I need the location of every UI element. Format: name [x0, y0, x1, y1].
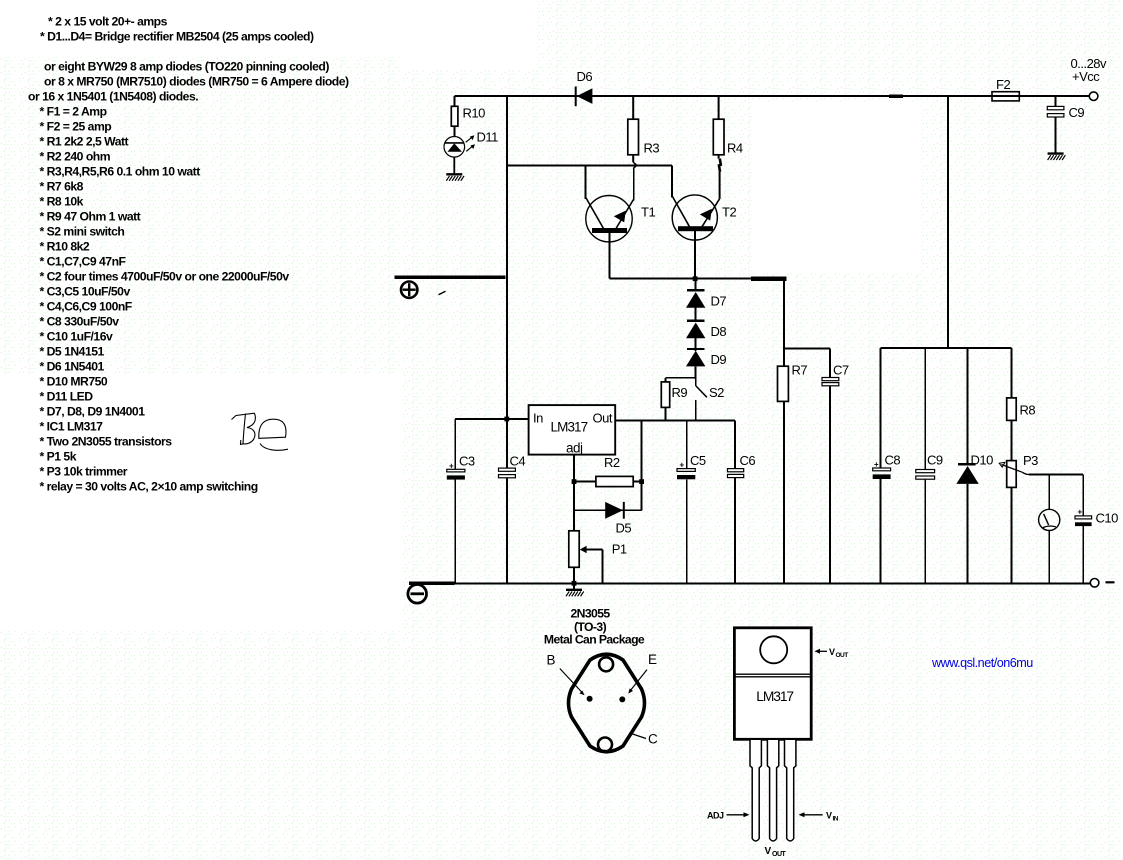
svg-text:B: B: [547, 653, 556, 668]
label ADJ: [707, 811, 750, 821]
svg-text:C6: C6: [740, 453, 756, 468]
svg-text:Out: Out: [593, 411, 613, 426]
diode D9: [686, 349, 705, 379]
svg-text:* Two 2N3055 transistors: * Two 2N3055 transistors: [40, 434, 173, 448]
svg-text:C7: C7: [833, 363, 849, 378]
LM317 legs: [750, 739, 796, 841]
svg-text:R9: R9: [672, 385, 688, 400]
svg-text:+Vcc: +Vcc: [1072, 69, 1100, 84]
svg-text:V: V: [826, 811, 832, 821]
svg-text:* C10 1uF/16v: * C10 1uF/16v: [40, 329, 113, 343]
svg-text:Metal Can Package: Metal Can Package: [544, 633, 645, 647]
svg-text:C9: C9: [927, 453, 943, 468]
ground below D11: [446, 174, 464, 181]
svg-text:* D7, D8, D9 1N4001: * D7, D8, D9 1N4001: [40, 404, 146, 418]
svg-text:* R9 47 Ohm 1 watt: * R9 47 Ohm 1 watt: [40, 209, 141, 223]
resistor R7: [778, 279, 789, 584]
ground below C9: [1048, 154, 1066, 161]
wire adj lead: [573, 455, 575, 531]
thick bar node: [751, 277, 787, 281]
wire bottom 0V rail: [454, 582, 1089, 584]
node In junction: [504, 417, 509, 422]
capacitor C8: [873, 348, 891, 583]
svg-text:T2: T2: [722, 205, 736, 220]
diode D10: [956, 348, 978, 583]
resistor R3: [628, 96, 639, 169]
diode D6: [576, 87, 593, 107]
parts list text: [28, 14, 349, 493]
wire R2 left: [574, 481, 596, 483]
svg-text:* C1,C7,C9 47nF: * C1,C7,C9 47nF: [40, 254, 126, 268]
label Vin: [799, 811, 839, 823]
svg-text:F2: F2: [996, 77, 1010, 92]
wire D5 line: [574, 509, 642, 511]
svg-text:E: E: [648, 652, 657, 667]
wire base drive line: [507, 164, 672, 166]
svg-text:or 16 x 1N5401 (1N5408) diodes: or 16 x 1N5401 (1N5408) diodes.: [28, 89, 198, 103]
svg-text:* R1 2k2 2,5 Watt: * R1 2k2 2,5 Watt: [40, 134, 129, 148]
terminal plus symbol: [401, 282, 417, 298]
svg-text:* D5 1N4151: * D5 1N4151: [40, 344, 105, 358]
svg-text:* C2 four times 4700uF/50v or: * C2 four times 4700uF/50v or one 22000u…: [40, 269, 290, 283]
LED D11: [444, 135, 475, 173]
resistor R2: [596, 476, 633, 486]
wire R9/S2 branch: [666, 377, 697, 379]
wire output node rail: [615, 419, 735, 421]
svg-text:LM317: LM317: [756, 689, 793, 704]
meter M1: [1039, 475, 1060, 584]
svg-text:* IC1 LM317: * IC1 LM317: [40, 419, 104, 433]
svg-text:OUT: OUT: [772, 851, 787, 858]
svg-text:2N3055: 2N3055: [570, 607, 610, 621]
svg-text:C3: C3: [459, 454, 475, 469]
op-amp/regulator U1 LM317 box: [529, 405, 616, 455]
svg-text:C5: C5: [690, 453, 706, 468]
svg-text:* F2 = 25 amp: * F2 = 25 amp: [40, 119, 112, 133]
svg-text:* C4,C6,C9 100nF: * C4,C6,C9 100nF: [40, 299, 132, 313]
svg-text:* D10 MR750: * D10 MR750: [40, 374, 108, 388]
svg-text:R10: R10: [463, 106, 486, 121]
svg-text:D5: D5: [616, 521, 632, 536]
switch S2: [696, 378, 707, 421]
svg-text:* R8 10k: * R8 10k: [40, 194, 84, 208]
svg-text:R8: R8: [1020, 403, 1036, 418]
svg-text:V: V: [765, 846, 772, 857]
svg-text:C4: C4: [510, 454, 526, 469]
svg-text:R3: R3: [644, 141, 660, 156]
label C with leader: [633, 732, 658, 747]
svg-text:* R10 8k2: * R10 8k2: [40, 239, 90, 253]
resistor R8: [1007, 348, 1017, 461]
capacitor C9 (filter): [916, 348, 935, 583]
wire base node down to D7: [694, 279, 696, 291]
svg-text:or eight BYW29 8 amp diodes (T: or eight BYW29 8 amp diodes (TO220 pinni…: [44, 59, 329, 73]
tick on top rail: [889, 94, 903, 97]
svg-text:or 8 x MR750 (MR7510) diodes (: or 8 x MR750 (MR7510) diodes (MR750 = 6 …: [44, 74, 349, 88]
svg-text:D10: D10: [971, 453, 994, 468]
terminal minus symbol: [408, 585, 427, 604]
svg-text:T1: T1: [641, 205, 655, 220]
terminal 0V right: [1090, 579, 1099, 588]
svg-text:LM317: LM317: [551, 420, 588, 435]
wire top +V rail: [455, 95, 1089, 97]
svg-text:In: In: [533, 411, 543, 426]
svg-text:* relay = 30 volts AC, 2×10 am: * relay = 30 volts AC, 2×10 amp switchin…: [40, 479, 258, 493]
diode D7: [686, 290, 705, 320]
svg-text:* R3,R4,R5,R6 0.1 ohm 10 watt: * R3,R4,R5,R6 0.1 ohm 10 watt: [40, 164, 201, 178]
svg-text:* P1 5k: * P1 5k: [40, 449, 77, 463]
terminal +Vcc output: [1089, 92, 1098, 101]
svg-text:V: V: [829, 647, 835, 657]
wire R2 right: [633, 481, 641, 483]
wire P3 wiper line: [1029, 474, 1083, 476]
diode D5: [605, 502, 624, 519]
capacitor C9 (output): [1047, 96, 1064, 153]
svg-text:C: C: [648, 732, 658, 747]
diode D8: [686, 321, 705, 351]
transistor T1: [586, 165, 634, 278]
svg-text:IN: IN: [833, 816, 839, 823]
resistor R4: [713, 96, 724, 199]
svg-text:D7: D7: [711, 294, 727, 309]
svg-text:* F1 = 2 Amp: * F1 = 2 Amp: [40, 104, 107, 118]
svg-text:ADJ: ADJ: [707, 811, 724, 821]
2N3055 package labels: [544, 607, 645, 647]
svg-text:* S2 mini switch: * S2 mini switch: [40, 224, 125, 238]
ground below P1: [566, 583, 584, 596]
svg-text:D11: D11: [477, 130, 499, 145]
svg-text:C10: C10: [1096, 511, 1119, 526]
wire R2 right vertical: [641, 420, 643, 510]
svg-text:* C8 330uF/50v: * C8 330uF/50v: [40, 314, 120, 328]
capacitor C5: [677, 420, 695, 583]
label B with arrow: [547, 653, 585, 696]
svg-text:S2: S2: [709, 385, 724, 400]
svg-text:* D6 1N5401: * D6 1N5401: [40, 359, 105, 373]
svg-text:* R7 6k8: * R7 6k8: [40, 179, 84, 193]
handwritten Be mark: [232, 413, 289, 450]
svg-text:D9: D9: [711, 352, 727, 367]
svg-text:adj: adj: [566, 441, 583, 456]
resistor R9: [661, 378, 669, 421]
pin B dot: [587, 696, 593, 702]
svg-text:P1: P1: [612, 542, 627, 557]
capacitor C10: [1075, 475, 1092, 584]
resistor R10: [451, 96, 458, 137]
white patch left (below parts list): [0, 374, 401, 631]
wire vertical raw to right network: [947, 96, 949, 348]
stray tick mark: [439, 291, 446, 295]
svg-text:* C3,C5 10uF/50v: * C3,C5 10uF/50v: [40, 284, 131, 298]
svg-text:P3: P3: [1023, 453, 1038, 468]
capacitor C6: [728, 420, 744, 583]
white patch top-left: [0, 0, 537, 57]
white patch middle (blank schematic area): [752, 102, 921, 272]
thick 0V bus: [409, 581, 455, 585]
junction T2 base: [693, 276, 698, 281]
svg-text:D6: D6: [577, 69, 593, 84]
wire base node bus: [610, 278, 752, 280]
svg-text:OUT: OUT: [836, 652, 849, 659]
wire LM317 In lead: [455, 418, 528, 420]
svg-text:R4: R4: [727, 141, 743, 156]
thick +V input bus: [394, 276, 505, 280]
wire right network top rail: [881, 347, 1012, 349]
LM317 TO-220 package: [734, 628, 811, 740]
svg-text:R2: R2: [604, 455, 620, 470]
pin E dot: [619, 696, 625, 702]
svg-text:* P3 10k trimmer: * P3 10k trimmer: [40, 464, 128, 478]
fuse F2: [992, 92, 1019, 101]
svg-text:R7: R7: [792, 363, 808, 378]
potentiometer P1: [569, 531, 603, 584]
svg-text:D8: D8: [711, 324, 727, 339]
label E with arrow: [628, 652, 657, 694]
svg-text:C9: C9: [1069, 105, 1085, 120]
minus dash: [1106, 581, 1115, 583]
label Vout bottom: [765, 846, 787, 858]
TO-3 can outline: [569, 654, 645, 752]
capacitor C4: [499, 468, 516, 478]
svg-text:* D11 LED: * D11 LED: [40, 389, 94, 403]
capacitor C3: [447, 419, 465, 583]
wire vertical from rail to LM317 In / C4: [506, 96, 508, 468]
potentiometer P3: [999, 461, 1029, 584]
svg-text:* 2 x 15 volt 20+- amps: * 2 x 15 volt 20+- amps: [48, 14, 168, 28]
svg-text:* D1...D4= Bridge rectifier MB: * D1...D4= Bridge rectifier MB2504 (25 a…: [40, 29, 314, 43]
label Vout top: [815, 647, 849, 659]
capacitor C7: [784, 348, 839, 583]
transistor T2: [672, 165, 720, 278]
svg-text:www.qsl.net/on6mu: www.qsl.net/on6mu: [931, 656, 1033, 670]
svg-text:* R2 240 ohm: * R2 240 ohm: [40, 149, 111, 163]
svg-text:C8: C8: [885, 453, 901, 468]
